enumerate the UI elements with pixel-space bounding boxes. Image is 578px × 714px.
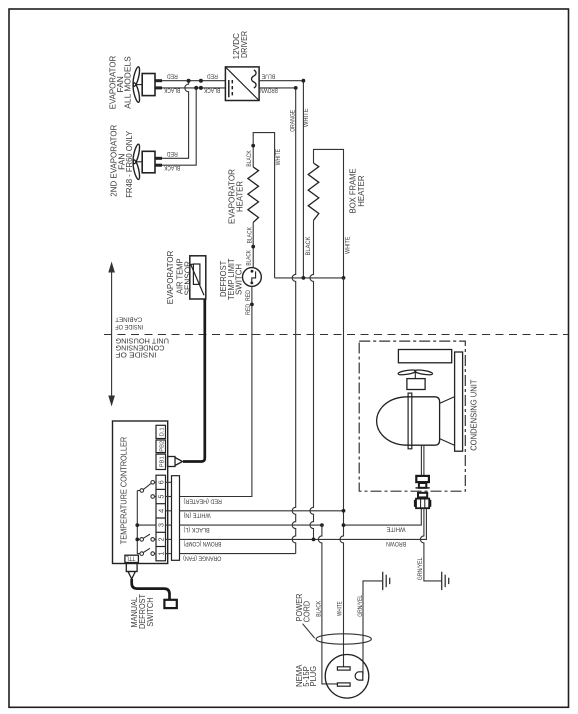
evaporator air temp sensor RT1 label [165, 251, 192, 305]
terminal numbers [157, 480, 166, 555]
power cord label [294, 594, 312, 623]
svg-text:3: 3 [157, 523, 166, 527]
TTL connector [126, 563, 137, 579]
wire RED fan M1 to driver [162, 80, 225, 82]
defrost temp limit switch S1 label [218, 259, 244, 301]
wire power cord BLACK [318, 525, 337, 684]
wire white right segment to compressor [344, 508, 422, 525]
svg-text:WHITE (N): WHITE (N) [184, 512, 211, 518]
inside of cabinet arrow [108, 262, 115, 407]
svg-text:DRIVER: DRIVER [239, 31, 249, 58]
junction dot white bus 1 [302, 276, 306, 280]
condenser fan [398, 369, 433, 389]
svg-text:BLACK: BLACK [247, 227, 253, 243]
svg-text:BLACK: BLACK [306, 237, 312, 256]
terminal strip cells [156, 475, 166, 561]
box frame heater R2 label [347, 168, 366, 213]
svg-text:WHITE: WHITE [346, 237, 352, 255]
svg-text:D.1: D.1 [159, 427, 165, 436]
svg-text:GRN/YEL: GRN/YEL [418, 557, 424, 580]
svg-text:BLACK: BLACK [316, 601, 322, 617]
wire BLUE driver output [259, 81, 303, 278]
junction dot mid [251, 245, 255, 249]
corner dot blue/white [302, 79, 306, 83]
svg-text:PB2: PB2 [159, 441, 165, 452]
svg-text:RED: RED [166, 73, 178, 79]
svg-text:TTL: TTL [125, 554, 135, 560]
svg-text:BROWN: BROWN [386, 540, 406, 546]
svg-text:6: 6 [157, 480, 166, 484]
12VDC driver U1 symbol [225, 67, 259, 101]
svg-text:CORD: CORD [302, 601, 312, 623]
wire BLACK (L) terminal 3 [180, 524, 322, 526]
relay contact 6 [137, 481, 154, 499]
wire WHITE (N) terminal 4 [180, 510, 344, 512]
junction dot brown/black [312, 538, 316, 542]
power cord leader line [303, 624, 315, 638]
junction dot bus t2 [135, 538, 139, 542]
NEMA 5-15P plug label [294, 664, 318, 687]
wire RED fan M2 with hop over black [162, 81, 189, 159]
compressor motor body [377, 352, 463, 451]
svg-text:PB1: PB1 [159, 456, 165, 467]
svg-text:RED: RED [246, 289, 252, 301]
junction dot white bus 2 [342, 276, 346, 280]
12VDC driver U1 label [231, 31, 249, 60]
NEMA 5-15P plug symbol [325, 655, 369, 699]
wire BROWN (COMP) terminal 2 [180, 508, 427, 539]
wire BLACK box frame heater bottom [310, 220, 313, 539]
temperature controller A1 label [119, 437, 129, 545]
2nd evaporator fan M2 symbol [132, 144, 162, 180]
svg-text:BROWN: BROWN [260, 87, 278, 93]
manual defrost switch label [129, 594, 155, 629]
svg-text:SWITCH: SWITCH [145, 597, 155, 627]
terminal row stub wires [137, 482, 171, 553]
junction dot bus t3 [135, 523, 139, 527]
defrost temp limit switch S1 symbol [243, 268, 262, 287]
svg-text:BLACK: BLACK [164, 86, 180, 92]
junction dot black 2 [199, 86, 203, 90]
svg-text:WHITE: WHITE [338, 601, 344, 616]
power cord ellipse [316, 634, 371, 644]
wire BLACK fan M2 [162, 88, 196, 165]
wire heater bottom to defrost switch [252, 222, 254, 267]
resistor zigzag box frame heater R2 [308, 163, 319, 220]
manual defrost switch S2 [164, 600, 176, 608]
ground symbol left [383, 572, 390, 590]
temperature controller A1 box [113, 421, 168, 564]
svg-text:PLUG: PLUG [308, 666, 318, 687]
svg-text:1: 1 [157, 552, 166, 556]
svg-text:HEATER: HEATER [356, 176, 366, 207]
svg-text:WHITE: WHITE [276, 149, 282, 165]
svg-text:BLUE: BLUE [262, 73, 276, 79]
junction dot black L [320, 523, 324, 527]
svg-text:SWITCH: SWITCH [234, 264, 244, 295]
relay contact 2 [137, 534, 154, 541]
sensor connector on controller [168, 457, 183, 467]
svg-text:BLACK: BLACK [246, 250, 252, 266]
boundary dashed line [104, 334, 569, 336]
PB1 PB2 D.1 cells [156, 425, 166, 469]
svg-text:ALL MODELS: ALL MODELS [123, 56, 133, 109]
svg-text:RED (HEATER): RED (HEATER) [184, 497, 222, 503]
svg-text:ORANGE: ORANGE [290, 110, 296, 132]
wire ORANGE (FAN) terminal 1 [180, 553, 296, 555]
svg-text:BROWN (COMP): BROWN (COMP) [184, 540, 222, 546]
junction dot white right [342, 523, 346, 527]
wire white main vertical [340, 278, 344, 667]
svg-text:INSIDE OFCABINET: INSIDE OFCABINET [115, 316, 143, 330]
svg-text:CONDENSING UNIT: CONDENSING UNIT [468, 380, 478, 451]
svg-text:SENSOR: SENSOR [182, 261, 192, 296]
condenser coil [398, 350, 451, 363]
svg-text:RED: RED [206, 73, 218, 79]
svg-text:2: 2 [157, 537, 166, 541]
condensing unit dashed box [359, 341, 465, 491]
svg-text:BLACK: BLACK [247, 150, 253, 166]
labels D.1 PB2 PB1 [159, 427, 165, 467]
relay bus [137, 491, 140, 554]
manual defrost switch cable thick [132, 579, 170, 600]
svg-text:WHITE: WHITE [387, 525, 406, 531]
white bus wire with hops [275, 277, 344, 279]
svg-text:RED: RED [246, 303, 252, 315]
evaporator heater R1 label [227, 169, 245, 224]
wire top of evaporator heater [253, 133, 274, 278]
junction dot heater top [251, 144, 255, 148]
svg-text:4: 4 [157, 509, 166, 513]
wire RED defrost switch to controller terminal 5 [180, 286, 252, 496]
evaporator fan M1 symbol [132, 66, 162, 103]
wire BLACK fan M1 to driver [162, 87, 225, 89]
corner dot brown/orange [294, 86, 298, 90]
ground symbol right [442, 572, 449, 590]
svg-text:EVAPORATOR: EVAPORATOR [165, 251, 175, 305]
compressor leads twin [421, 445, 424, 476]
wire top of box frame heater [314, 149, 344, 278]
junction dot red 2 [199, 79, 203, 83]
svg-text:TEMPERATURE CONTROLLER: TEMPERATURE CONTROLLER [119, 437, 129, 545]
sensor cable thick [183, 299, 205, 462]
svg-text:5: 5 [157, 494, 166, 498]
TTL box [125, 554, 138, 562]
svg-text:BLACK: BLACK [164, 164, 180, 170]
svg-text:RED: RED [166, 150, 178, 156]
svg-text:ORANGE (FAN): ORANGE (FAN) [183, 554, 221, 560]
wire power cord GRN/YEL to ground [363, 581, 383, 675]
2nd evaporator fan M2 label [109, 125, 134, 198]
compressor connector upper [416, 476, 430, 488]
connector strip [172, 476, 180, 561]
junction dot red [187, 79, 191, 83]
wire compressor GRN/YEL to ground [420, 508, 441, 581]
evaporator air temp sensor RT1 symbol [190, 256, 206, 299]
relay contact 1 [140, 548, 155, 555]
svg-text:BLACK (L): BLACK (L) [184, 526, 210, 532]
resistor zigzag evaporator heater R1 [248, 167, 259, 222]
svg-text:BLACK: BLACK [204, 86, 220, 92]
junction dot red [250, 303, 254, 307]
svg-text:WHITE: WHITE [304, 108, 310, 127]
junction dot black [194, 86, 198, 90]
evaporator fan M1 label [108, 56, 133, 110]
compressor connector lower [414, 493, 431, 508]
svg-text:GRN/YEL: GRN/YEL [358, 594, 364, 617]
wire BROWN driver output [259, 88, 296, 554]
svg-text:HEATER: HEATER [234, 181, 244, 212]
junction dot white n [342, 509, 346, 513]
